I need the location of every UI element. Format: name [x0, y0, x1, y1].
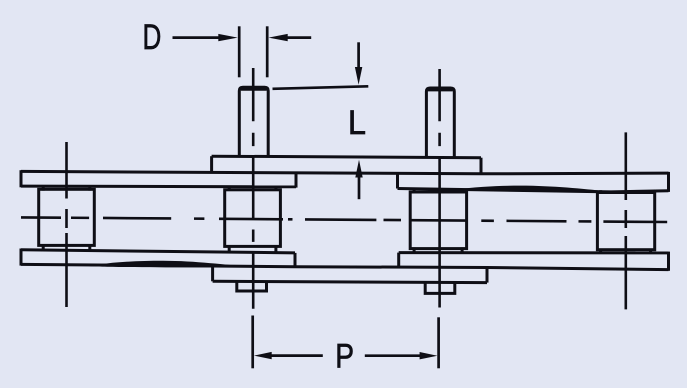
left inner link bottom plate top edge — [21, 250, 295, 253]
pin 2 vertical centerline — [438, 69, 441, 308]
pin link wide top plate top edge — [212, 156, 481, 158]
bushing notches roller R1 — [43, 187, 90, 250]
svg-text:P: P — [335, 337, 354, 375]
plate overlap wedge W2 (top right) — [455, 186, 611, 193]
dimension L: leader line at pin top — [273, 86, 369, 89]
dimension D: extension line left — [238, 26, 241, 77]
top edge band: inner link plates + wide plate bottom (merged line) — [21, 171, 669, 173]
pin 1 bottom head tab — [237, 282, 267, 291]
svg-text:L: L — [348, 104, 366, 142]
roller R1 vertical centerline — [65, 142, 68, 307]
right inner link top plate left end — [396, 174, 399, 189]
arrowhead D left (points right) — [218, 34, 237, 41]
dimension P: right arrow line — [365, 354, 421, 357]
svg-text:D: D — [143, 17, 162, 57]
roller R4 — [597, 193, 654, 250]
right inner link bottom plate left end — [397, 253, 400, 267]
pin link wide bottom plate right edge — [486, 267, 489, 282]
pin link wide bottom plate bottom edge — [213, 281, 487, 282]
arrowhead D right (points left) — [269, 34, 288, 41]
arrowhead P left (points left) — [254, 352, 272, 359]
left inner link bottom plate right end — [294, 253, 297, 267]
dimension L: lower arrow line — [358, 176, 361, 199]
dimension P: extension line right — [437, 317, 440, 368]
left inner link bottom plate left end — [20, 249, 23, 266]
left inner link top plate right end — [295, 173, 298, 188]
dimension L: upper arrow line — [357, 42, 360, 68]
left inner link top plate bottom edge — [21, 185, 296, 189]
pin 1 vertical centerline — [252, 68, 255, 309]
roller R2 — [225, 190, 281, 247]
pin 2 bottom head tab — [425, 282, 455, 293]
extended pin 1 body — [239, 87, 268, 156]
dimension P: extension line left — [251, 316, 254, 369]
left inner link top plate left end — [20, 170, 23, 187]
pin 2 thick top edge — [428, 87, 453, 91]
right inner link bottom plate right end — [667, 252, 670, 271]
arrowhead L up — [355, 160, 362, 178]
arrowhead P right (points right) — [420, 352, 438, 359]
pin link wide bottom plate left edge — [211, 265, 214, 281]
pin 1 thick top edge — [241, 87, 267, 91]
dimension D: extension line right — [266, 26, 269, 77]
right inner link plates right end — [667, 172, 670, 192]
bottom edge band: inner link plates + wide plate top (merged line) — [21, 264, 669, 269]
dimension D: right arrow line — [287, 36, 312, 39]
pin link wide top plate left edge — [210, 156, 213, 172]
extended pin 2 body — [426, 88, 454, 157]
roller R4 vertical centerline — [624, 132, 627, 309]
bushing notches roller R4 — [601, 190, 651, 253]
bushing notches roller R2 — [229, 187, 276, 253]
pin link wide top plate right edge — [480, 158, 483, 174]
horizontal chain centerline — [21, 217, 667, 222]
dimension P: left arrow line — [270, 354, 323, 357]
bushing notches roller R3 — [414, 189, 462, 253]
arrowhead L down — [355, 67, 362, 85]
roller R1 — [39, 189, 95, 245]
right inner link bottom plate top edge — [399, 251, 669, 254]
right inner link top plate bottom edge — [398, 189, 669, 192]
roller R3 — [410, 192, 466, 249]
plate overlap wedge W1 (bottom left) — [89, 261, 248, 268]
dimension D: left arrow line — [173, 36, 221, 39]
